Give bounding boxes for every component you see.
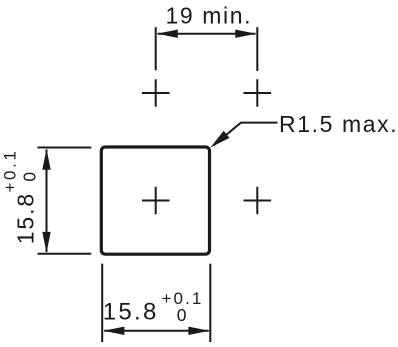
left dimension line (46, 150, 48, 253)
center mark top-right (244, 79, 272, 106)
leader line for R1.5 max. (214, 123, 278, 146)
arrowhead left (19 min.) (157, 30, 178, 38)
arrowhead right (19 min.) (235, 30, 256, 38)
center mark top-left (142, 79, 170, 106)
bottom dimension line (104, 330, 209, 332)
dimension line 19 min. (158, 33, 256, 35)
svg-text:19 min.: 19 min. (166, 2, 253, 28)
left dim extension line top (38, 147, 92, 149)
leader arrowhead at corner radius (210, 131, 229, 148)
bottom dim extension line right (209, 264, 211, 342)
svg-text:R1.5 max.: R1.5 max. (279, 111, 398, 137)
center mark middle-right (244, 187, 272, 214)
svg-text:15.8: 15.8 (13, 192, 39, 244)
extension line right of 19 min. dimension (256, 27, 258, 71)
arrowhead left (bottom dim) (103, 327, 124, 335)
svg-text:0: 0 (177, 305, 187, 325)
left dim extension line bottom (38, 253, 92, 255)
arrowhead right (bottom dim) (188, 327, 209, 335)
svg-text:15.8: 15.8 (103, 298, 159, 325)
extension line left of 19 min. dimension (155, 27, 157, 70)
center mark cutout center (142, 187, 170, 214)
bottom dim extension line left (101, 264, 103, 342)
svg-text:0: 0 (19, 172, 39, 182)
svg-text:+0.1: +0.1 (0, 149, 19, 193)
arrowhead down (left dim) (42, 232, 50, 253)
square cutout outline (101, 147, 209, 254)
arrowhead up (left dim) (42, 149, 50, 170)
